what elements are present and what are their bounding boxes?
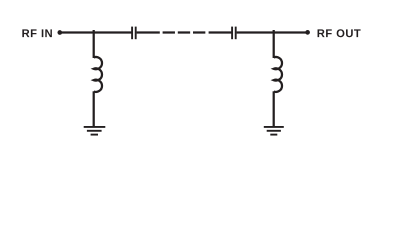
wire C2 to RF OUT [237, 31, 308, 33]
node RF IN terminal [57, 30, 62, 35]
ground right [264, 127, 284, 135]
ground left [84, 127, 106, 135]
wire dashed middle section [163, 31, 206, 33]
node junction left [93, 30, 95, 58]
wire RF IN to C1 [60, 31, 132, 33]
label RF OUT [318, 29, 361, 37]
node junction right [273, 30, 275, 58]
capacitor C2 [232, 27, 236, 40]
wire L2 to ground [273, 91, 275, 127]
capacitor C1 [132, 27, 136, 40]
node RF OUT terminal [305, 30, 310, 35]
label RF IN [22, 29, 52, 37]
inductor L2 [274, 57, 282, 92]
inductor L1 [94, 57, 102, 92]
wire dashed section to C2 [209, 31, 232, 33]
wire L1 to ground [93, 91, 95, 127]
wire C1 to dashed section [137, 31, 160, 33]
